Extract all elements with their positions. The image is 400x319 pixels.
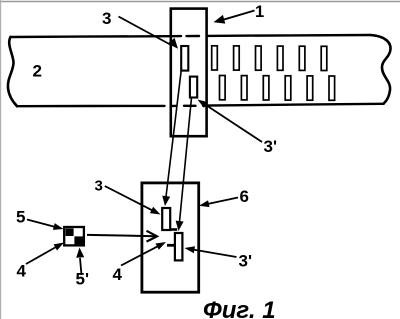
- tape top edge dashed inside head: [172, 35, 199, 38]
- frame top edge: [0, 1, 400, 3]
- pattern element symbol (cells 5 and 5'): [64, 227, 84, 245]
- tape bottom edge dashed inside head: [172, 105, 196, 107]
- carrier tape 2 outline: [8, 35, 391, 106]
- leader line label 3 upper: [119, 17, 173, 46]
- leader line label 5: [27, 220, 55, 227]
- horizontal arrow from symbol to box 6: [87, 235, 156, 236]
- reading head box 1: [171, 9, 207, 137]
- tape bottom edge right segment: [203, 104, 384, 106]
- step connector between marks: [170, 228, 178, 231]
- leader line label 4 middle: [121, 246, 158, 265]
- svg-text:3: 3: [95, 178, 103, 195]
- projection line from mark 3 to lower unit: [166, 68, 182, 200]
- mark 3 in box 6: [162, 208, 170, 230]
- projection line from mark 3' to lower unit: [179, 98, 191, 226]
- sensing unit box 6: [142, 183, 199, 292]
- svg-text:1: 1: [255, 3, 264, 21]
- svg-text:5': 5': [76, 270, 90, 289]
- svg-text:5: 5: [16, 208, 25, 227]
- tape bottom edge left segment: [17, 105, 165, 108]
- tape top edge right segment: [207, 34, 370, 37]
- tape left break edge: [8, 37, 17, 106]
- tape right break edge: [370, 35, 391, 104]
- leader line label 6: [208, 198, 238, 204]
- leader line label 3' lower: [194, 250, 237, 257]
- tick marks bottom row on tape: [220, 76, 335, 101]
- leader line label 4 left: [26, 247, 56, 264]
- svg-text:3': 3': [264, 137, 278, 156]
- leader line label 1: [223, 11, 255, 20]
- tape top edge left segment: [11, 35, 171, 38]
- svg-text:4: 4: [17, 262, 27, 281]
- frame left edge: [0, 0, 2, 319]
- tick marks top row on tape: [212, 46, 327, 71]
- svg-text:2: 2: [33, 62, 42, 81]
- leader line label 3' upper: [204, 104, 262, 142]
- svg-text:3: 3: [102, 9, 111, 28]
- svg-text:Фиг. 1: Фиг. 1: [203, 297, 276, 319]
- svg-text:6: 6: [240, 187, 249, 206]
- leader line label 3 middle: [105, 186, 152, 210]
- leader line label 5': [80, 258, 82, 275]
- mark 3 in box 1: [181, 46, 188, 71]
- svg-text:3': 3': [239, 252, 253, 271]
- mark 3' in box 1: [190, 77, 197, 98]
- mark 3' in box 6: [175, 233, 183, 260]
- element 4 bar at mark 3': [167, 244, 175, 247]
- svg-text:4: 4: [113, 265, 123, 284]
